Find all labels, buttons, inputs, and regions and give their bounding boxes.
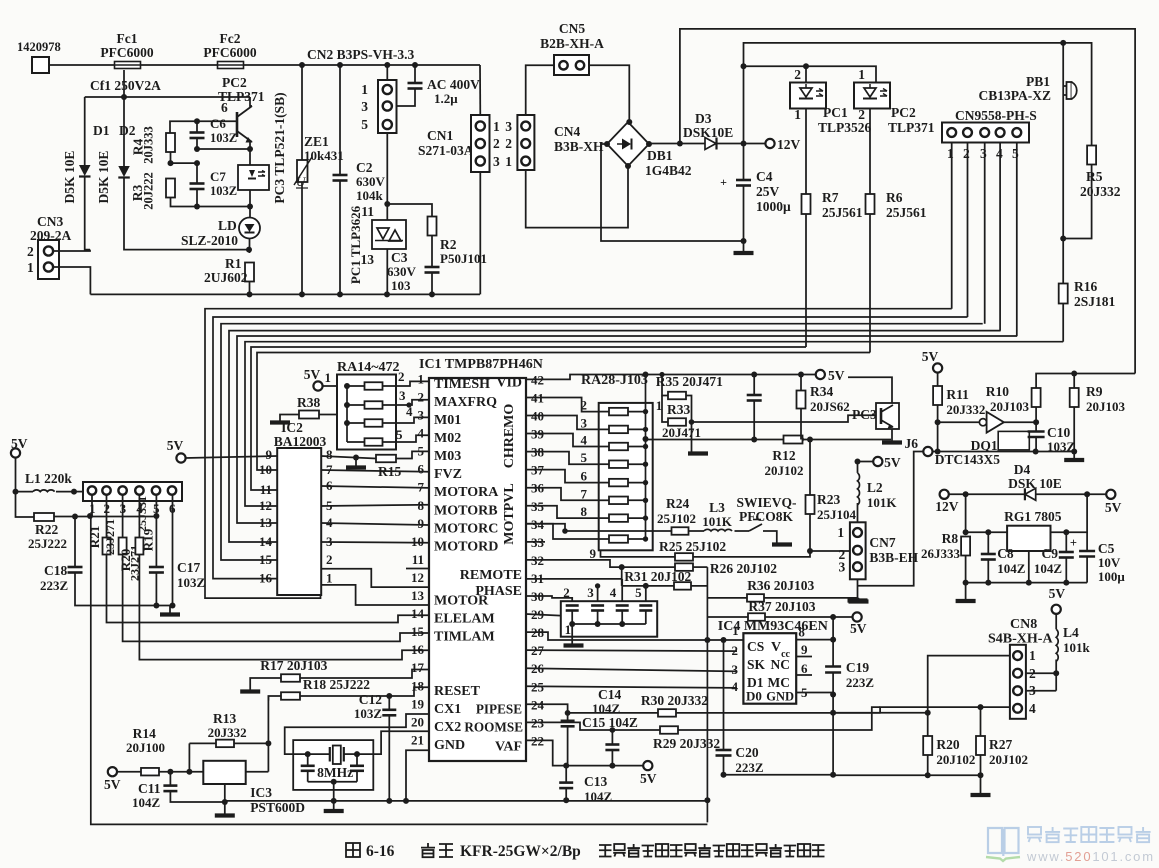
wire RA14 row1 to IC1 pin1	[396, 381, 429, 386]
svg-text:4: 4	[581, 433, 588, 448]
node LD R1	[246, 247, 252, 253]
node R3 R4 C7 junction	[171, 152, 198, 163]
resistor RA28 element 8	[599, 538, 609, 540]
svg-text:J6: J6	[905, 436, 919, 451]
wire R26 to vertical	[693, 566, 707, 568]
svg-text:104Z: 104Z	[132, 795, 161, 810]
svg-text:4: 4	[732, 679, 739, 694]
capacitor C15 104Z	[567, 713, 569, 721]
svg-text:20J332: 20J332	[208, 725, 247, 740]
wire D1 column	[84, 97, 86, 165]
resistor R23 25J104	[806, 495, 815, 514]
wire Vcc column	[832, 617, 834, 667]
wire bus line 3 (CN9558 pin3 to IC2 pin15)	[221, 324, 983, 560]
wire RA28 common bus	[645, 375, 647, 540]
svg-text:DB1: DB1	[647, 148, 673, 163]
svg-text:101K: 101K	[867, 495, 898, 510]
wire CN1 bottom to rail	[479, 172, 481, 294]
ground R36	[858, 598, 860, 600]
svg-text:9: 9	[590, 546, 597, 561]
wire D2 to LD node	[124, 178, 249, 250]
svg-text:CX1: CX1	[434, 702, 461, 717]
svg-text:R30 20J332: R30 20J332	[641, 693, 708, 708]
svg-text:5: 5	[1012, 146, 1019, 161]
wire R7 column to bus	[805, 214, 807, 347]
wire R11 node to DQ1	[938, 421, 979, 423]
ground R27	[980, 775, 982, 793]
wire IC1 pin 37 to RA28 row 5	[526, 470, 599, 483]
svg-text:1: 1	[837, 525, 844, 540]
wire R11 to J6 node	[937, 405, 939, 451]
capacitor C17 103Z	[149, 566, 164, 569]
capacitor C4 25V 1000u	[743, 144, 745, 181]
wire CN9558 pin2 column	[967, 143, 969, 318]
wire R10 bottom	[1035, 407, 1037, 432]
capacitor C12 103Z	[388, 696, 390, 710]
svg-text:C8: C8	[997, 546, 1014, 561]
svg-text:D2: D2	[119, 123, 136, 138]
svg-text:2UJ602: 2UJ602	[204, 270, 248, 285]
wire IC1 pin 34 to RA28 row 8	[526, 524, 599, 539]
svg-text:CHREMO: CHREMO	[502, 404, 517, 469]
svg-text:1: 1	[418, 371, 425, 386]
wire CN2 column top	[386, 65, 388, 80]
capacitor array element 4	[616, 604, 629, 607]
svg-text:PC2: PC2	[222, 75, 247, 90]
resistor R26 20J102	[675, 563, 693, 571]
svg-text:R23: R23	[817, 492, 840, 507]
node RA28 bus top	[643, 372, 649, 378]
watermark site name	[1028, 827, 1041, 835]
wire cap col5 up	[645, 586, 647, 601]
svg-text:25J561: 25J561	[886, 205, 927, 220]
wire IC1 pin32 to R26	[526, 560, 622, 567]
svg-text:2: 2	[326, 552, 333, 567]
wire PC1 opto top	[805, 66, 807, 82]
wire CN7 bottom stem	[857, 579, 859, 599]
wire L2 to CN7 pin1	[857, 503, 859, 522]
svg-text:MAXFRQ: MAXFRQ	[434, 395, 497, 410]
terminal 5V IC4	[853, 612, 862, 621]
svg-text:103Z: 103Z	[210, 131, 237, 145]
svg-text:4: 4	[406, 404, 413, 419]
svg-text:20J102: 20J102	[989, 752, 1028, 767]
svg-text:Fc1: Fc1	[117, 31, 138, 46]
svg-text:R33: R33	[667, 402, 690, 417]
svg-text:R8: R8	[942, 531, 959, 546]
svg-text:14: 14	[259, 534, 273, 549]
ground R33	[688, 451, 708, 455]
svg-text:23J271: 23J271	[103, 519, 117, 555]
svg-text:C14: C14	[598, 687, 621, 702]
svg-text:MOTORC: MOTORC	[434, 521, 498, 536]
node L1 left	[13, 489, 19, 495]
wire 5V rail pin42	[526, 375, 816, 380]
svg-text:8: 8	[581, 504, 588, 519]
svg-text:C2: C2	[356, 160, 373, 175]
svg-text:TLP3526: TLP3526	[818, 120, 872, 135]
svg-text:R20: R20	[936, 737, 959, 752]
svg-text:VID: VID	[496, 375, 522, 390]
svg-text:TIMESH: TIMESH	[434, 377, 490, 392]
resistor R10 20J103	[1032, 388, 1041, 407]
svg-text:20J222: 20J222	[142, 172, 156, 210]
svg-text:R16: R16	[1074, 279, 1097, 294]
wire IC1 pin29 to box	[526, 614, 561, 616]
svg-text:R9: R9	[1086, 384, 1103, 399]
svg-text:B3B-XH: B3B-XH	[554, 139, 604, 154]
svg-text:8: 8	[798, 625, 805, 640]
svg-text:PC3: PC3	[852, 407, 877, 422]
watermark book icon	[988, 828, 1019, 856]
connector CN 6-pin display	[83, 482, 182, 501]
ground R9	[1073, 452, 1075, 459]
svg-text:D0: D0	[746, 689, 762, 704]
svg-text:12: 12	[259, 498, 272, 513]
wire R30 line to R20	[880, 712, 928, 714]
terminal 1420978	[32, 57, 49, 73]
capacitor C9 104Z	[1065, 532, 1067, 552]
svg-text:CN7: CN7	[869, 535, 895, 550]
svg-text:11: 11	[361, 204, 374, 219]
svg-text:5: 5	[396, 427, 403, 442]
wire pin3 column	[122, 495, 124, 538]
terminal 5V L2	[873, 457, 882, 466]
wire CN3 pin2 to D1	[53, 250, 90, 251]
svg-text:MC: MC	[768, 675, 791, 690]
wire R35 left vertical	[662, 375, 668, 396]
wire CN7 pin2 line	[810, 550, 850, 552]
capacitor crystal right	[356, 754, 358, 766]
svg-text:C19: C19	[846, 660, 869, 675]
svg-text:3: 3	[732, 662, 739, 677]
svg-text:R15: R15	[378, 464, 401, 479]
capacitor AC 400V 1.2u	[414, 65, 416, 83]
svg-text:2: 2	[794, 67, 801, 82]
svg-text:LD: LD	[218, 218, 237, 233]
svg-text:20J100: 20J100	[126, 740, 165, 755]
wire cap array common	[572, 623, 646, 625]
svg-text:R34: R34	[810, 384, 833, 399]
ground C4	[743, 241, 745, 252]
svg-text:1: 1	[493, 119, 500, 134]
svg-text:CX2: CX2	[434, 720, 461, 735]
svg-text:5V: 5V	[922, 349, 939, 364]
svg-text:1: 1	[565, 622, 572, 637]
wire R16 to bus	[1062, 304, 1064, 342]
svg-text:R29 20J332: R29 20J332	[653, 736, 720, 751]
svg-text:RA14~472: RA14~472	[337, 360, 400, 375]
wire 12V to D4	[949, 493, 1025, 495]
svg-text:CN1: CN1	[427, 128, 453, 143]
node R13 R18	[265, 740, 271, 746]
resistor R22 25J222	[34, 513, 54, 521]
wire pin3 column lower to IC1 pin15	[123, 555, 429, 642]
svg-text:25J104: 25J104	[817, 507, 857, 522]
wire top rail corner to CN1	[479, 65, 481, 115]
svg-text:D3: D3	[695, 111, 712, 126]
wire IC2 pin1 to IC1 pin13	[321, 585, 429, 605]
svg-text:20J333: 20J333	[142, 126, 156, 164]
svg-text:15: 15	[411, 624, 425, 639]
svg-text:5V: 5V	[167, 438, 184, 453]
svg-text:PC2: PC2	[891, 105, 916, 120]
svg-text:20J471: 20J471	[662, 425, 701, 440]
capacitor array element 3	[591, 604, 604, 607]
svg-text:GND: GND	[766, 690, 794, 704]
wire R4 C6 top link	[170, 121, 237, 133]
wire R33 to PC3 base	[692, 415, 875, 422]
wire IC1 pin 40 to RA28 row 2	[526, 416, 599, 430]
wire switch to ground	[763, 531, 777, 543]
svg-text:D1: D1	[93, 123, 110, 138]
wire CN2 column to triac	[386, 133, 388, 220]
wire cap col4 up to pin31 line	[621, 579, 623, 601]
wire R33 R35 right vertical to ground	[686, 396, 692, 453]
svg-text:C7: C7	[210, 169, 226, 184]
wire CN5 right to DB1	[589, 65, 629, 122]
wire IC1 pin27 to IC4 SK	[526, 649, 737, 652]
svg-text:19: 19	[411, 696, 425, 711]
ground RG1 rail	[965, 583, 967, 600]
wire L4 to CN8 pins 2 3	[1055, 660, 1057, 691]
svg-text:CB13PA-XZ: CB13PA-XZ	[979, 88, 1052, 103]
svg-text:25J331: 25J331	[135, 496, 149, 532]
svg-text:1: 1	[27, 260, 34, 275]
svg-text:CN4: CN4	[554, 124, 580, 139]
svg-text:2: 2	[858, 107, 865, 122]
wire R9 bottom	[1073, 407, 1075, 452]
wire D4 to 5V	[1036, 493, 1107, 495]
resistor R6 25J561	[866, 194, 875, 214]
wire R13 left vertical	[188, 743, 190, 771]
svg-text:20: 20	[411, 714, 424, 729]
wire cap col3 up to R31 line	[597, 586, 599, 601]
wire 5V to RA14 pin1	[323, 385, 337, 387]
svg-text:9: 9	[801, 642, 808, 657]
svg-text:223Z: 223Z	[735, 760, 764, 775]
svg-text:1: 1	[732, 623, 739, 638]
svg-text:5: 5	[361, 117, 368, 132]
svg-text:20JS62: 20JS62	[810, 399, 850, 414]
node R12 line left	[643, 436, 649, 442]
svg-text:6: 6	[581, 469, 588, 484]
svg-text:103Z: 103Z	[177, 575, 206, 590]
wire R31 line	[622, 585, 674, 587]
node R20 top	[925, 710, 931, 716]
resistor R29 20J332	[660, 726, 678, 734]
svg-text:104k: 104k	[356, 188, 384, 203]
wire pin6 column	[172, 495, 174, 606]
node C12 top	[386, 693, 392, 699]
capacitor array box	[561, 601, 657, 637]
resistor RA14 element 2	[347, 404, 365, 406]
wire R1 to bottom rail	[249, 282, 251, 295]
svg-text:20J103: 20J103	[990, 399, 1030, 414]
wire R31 tap vertical	[621, 567, 623, 586]
svg-text:2: 2	[27, 244, 34, 259]
svg-text:S271-03A: S271-03A	[418, 143, 474, 158]
wire CN9558 pin1 column	[951, 143, 953, 309]
svg-text:5V: 5V	[104, 777, 121, 792]
svg-text:M01: M01	[434, 413, 461, 428]
svg-text:1: 1	[947, 146, 954, 161]
svg-text:C6: C6	[210, 116, 226, 131]
resistor R7 25J561	[802, 194, 811, 214]
wire IC1 pin30 to cap col2	[526, 596, 572, 601]
wire C20 column	[723, 640, 725, 750]
wire IC3 bottom stem	[224, 784, 226, 802]
node C20 top	[721, 637, 727, 643]
node filter cap top	[751, 372, 757, 378]
svg-text:1G4B42: 1G4B42	[645, 163, 692, 178]
svg-text:R24: R24	[666, 496, 689, 511]
svg-text:15: 15	[259, 552, 273, 567]
svg-text:MOTORA: MOTORA	[434, 485, 499, 500]
node C11 top	[167, 769, 173, 775]
svg-text:C4: C4	[756, 169, 773, 184]
stub IC1 pin33	[526, 541, 545, 543]
node L2 top	[855, 459, 861, 465]
node R22 pin5col	[153, 513, 159, 519]
wire R29 to CN8 pin4 line	[678, 707, 880, 730]
svg-text:13: 13	[259, 515, 273, 530]
wire PC1 opto to R7	[805, 109, 807, 195]
svg-text:3: 3	[839, 560, 846, 575]
wire R22 line	[54, 516, 156, 518]
wire crystal right to CX2	[357, 731, 429, 754]
svg-text:1: 1	[326, 571, 333, 586]
svg-text:R25 25J102: R25 25J102	[659, 539, 726, 554]
svg-text:NC: NC	[771, 657, 791, 672]
svg-text:B3B-EH: B3B-EH	[869, 550, 918, 565]
terminal 12V right	[940, 490, 949, 499]
wire D3 to 12V	[717, 143, 766, 145]
node R9 top	[1071, 371, 1077, 377]
wire opto to LD	[249, 190, 251, 218]
wire RA14 row3 to IC1 pin3	[396, 417, 429, 423]
svg-text:101K: 101K	[702, 514, 733, 529]
wire LD to R1	[249, 239, 251, 254]
stub IC4 pin9	[796, 656, 812, 658]
svg-text:20J102: 20J102	[765, 463, 804, 478]
ground R15	[355, 458, 357, 467]
svg-text:14: 14	[411, 606, 425, 621]
wire pin2 column	[106, 495, 108, 538]
wire pin4 column	[138, 495, 140, 538]
svg-text:20J102: 20J102	[936, 752, 975, 767]
svg-text:R13: R13	[213, 711, 236, 726]
svg-text:1420978: 1420978	[17, 40, 61, 54]
svg-text:R26 20J102: R26 20J102	[710, 561, 777, 576]
svg-text:1: 1	[361, 82, 368, 97]
resistor R8 26J333	[961, 537, 970, 556]
svg-text:R27: R27	[989, 737, 1012, 752]
svg-text:2SJ181: 2SJ181	[1074, 294, 1116, 309]
wire IC1 pin25 to IC4 D0	[526, 686, 737, 688]
svg-text:4: 4	[418, 426, 425, 441]
wire section1 bottom rail	[90, 293, 480, 295]
resistor RA28 element 6	[599, 499, 609, 501]
wire PC3 collector to 5V	[848, 377, 892, 403]
wire input to fuses	[49, 64, 115, 66]
wire PC2 emitter to opto PC3	[249, 142, 251, 165]
wire IC1 pin28 to IC4 CS	[526, 632, 743, 640]
wire CN9558 pin5 column	[1016, 143, 1018, 337]
svg-text:R35 20J471: R35 20J471	[656, 374, 723, 389]
svg-text:R22: R22	[35, 522, 58, 537]
svg-text:R17 20J103: R17 20J103	[260, 658, 327, 673]
svg-text:2: 2	[963, 146, 970, 161]
resistor R34 20JS62	[800, 375, 802, 391]
resistor R15	[376, 455, 396, 463]
stub IC1 pin11	[406, 568, 429, 570]
svg-text:20J332: 20J332	[1080, 184, 1121, 199]
resistor R20 20J102	[927, 713, 929, 736]
svg-text:3: 3	[587, 585, 594, 600]
svg-text:20J103: 20J103	[1086, 399, 1126, 414]
svg-text:3: 3	[361, 99, 368, 114]
wire crystal left to CX1	[285, 714, 429, 754]
svg-text:1.2μ: 1.2μ	[434, 91, 458, 106]
wire ZE1 to bottom rail	[301, 182, 303, 294]
terminal 5V VAF	[643, 761, 652, 770]
svg-text:TIMLAM: TIMLAM	[434, 630, 495, 645]
wire C6 bottom to emitter column	[197, 148, 250, 150]
svg-text:25J561: 25J561	[822, 205, 863, 220]
svg-text:2: 2	[732, 643, 739, 658]
svg-text:R31 20J102: R31 20J102	[624, 569, 691, 584]
svg-text:26J333: 26J333	[921, 546, 961, 561]
terminal 12V	[765, 139, 774, 148]
wire CN5 left to CN4	[526, 65, 554, 115]
svg-text:R6: R6	[886, 190, 903, 205]
crystal X1 8MHz	[329, 747, 331, 762]
svg-text:ELELAM: ELELAM	[434, 612, 495, 627]
wire IC1 pin 38 to RA28 row 4	[526, 452, 599, 465]
resistor RA28 element 3	[599, 446, 609, 448]
svg-text:5V: 5V	[1049, 586, 1066, 601]
svg-text:IC3: IC3	[250, 785, 272, 800]
node IC3 ground	[222, 799, 228, 805]
wire CN8 pin1 to R20 column	[928, 656, 1010, 713]
wire IC2 pin6 to IC1 pin7	[321, 486, 429, 488]
wire CN9558 pin4 column	[999, 143, 1001, 331]
wire 5V branch to R22	[16, 492, 35, 517]
svg-text:IC1 TMPB87PH46N: IC1 TMPB87PH46N	[419, 357, 543, 372]
svg-text:3: 3	[493, 154, 500, 169]
inverter DQ1 DTC143X5	[979, 419, 986, 426]
wire R34 bottom	[800, 409, 802, 440]
resistor R11 20J332	[933, 386, 942, 405]
wire bottom rail mid	[225, 800, 708, 802]
wire IC2 pin3 to IC1 pin10	[321, 541, 429, 544]
wire 5V to R11	[937, 373, 939, 386]
svg-text:2: 2	[398, 369, 405, 384]
resistor RA14 element 1	[347, 385, 365, 387]
svg-text:R12: R12	[772, 448, 795, 463]
wire IC2 pin8 to R15	[321, 456, 376, 459]
wire R16 column	[1062, 43, 1064, 284]
wire IC1 pin23 ROOMSE to R29	[526, 722, 660, 730]
wire D2 column upper	[123, 70, 125, 97]
svg-text:12: 12	[411, 570, 424, 585]
svg-text:L2: L2	[867, 480, 883, 495]
svg-text:R5: R5	[1086, 169, 1103, 184]
resistor R5 20J332	[1087, 146, 1096, 165]
svg-text:17: 17	[411, 660, 425, 675]
wire 5V to L1	[15, 458, 17, 492]
